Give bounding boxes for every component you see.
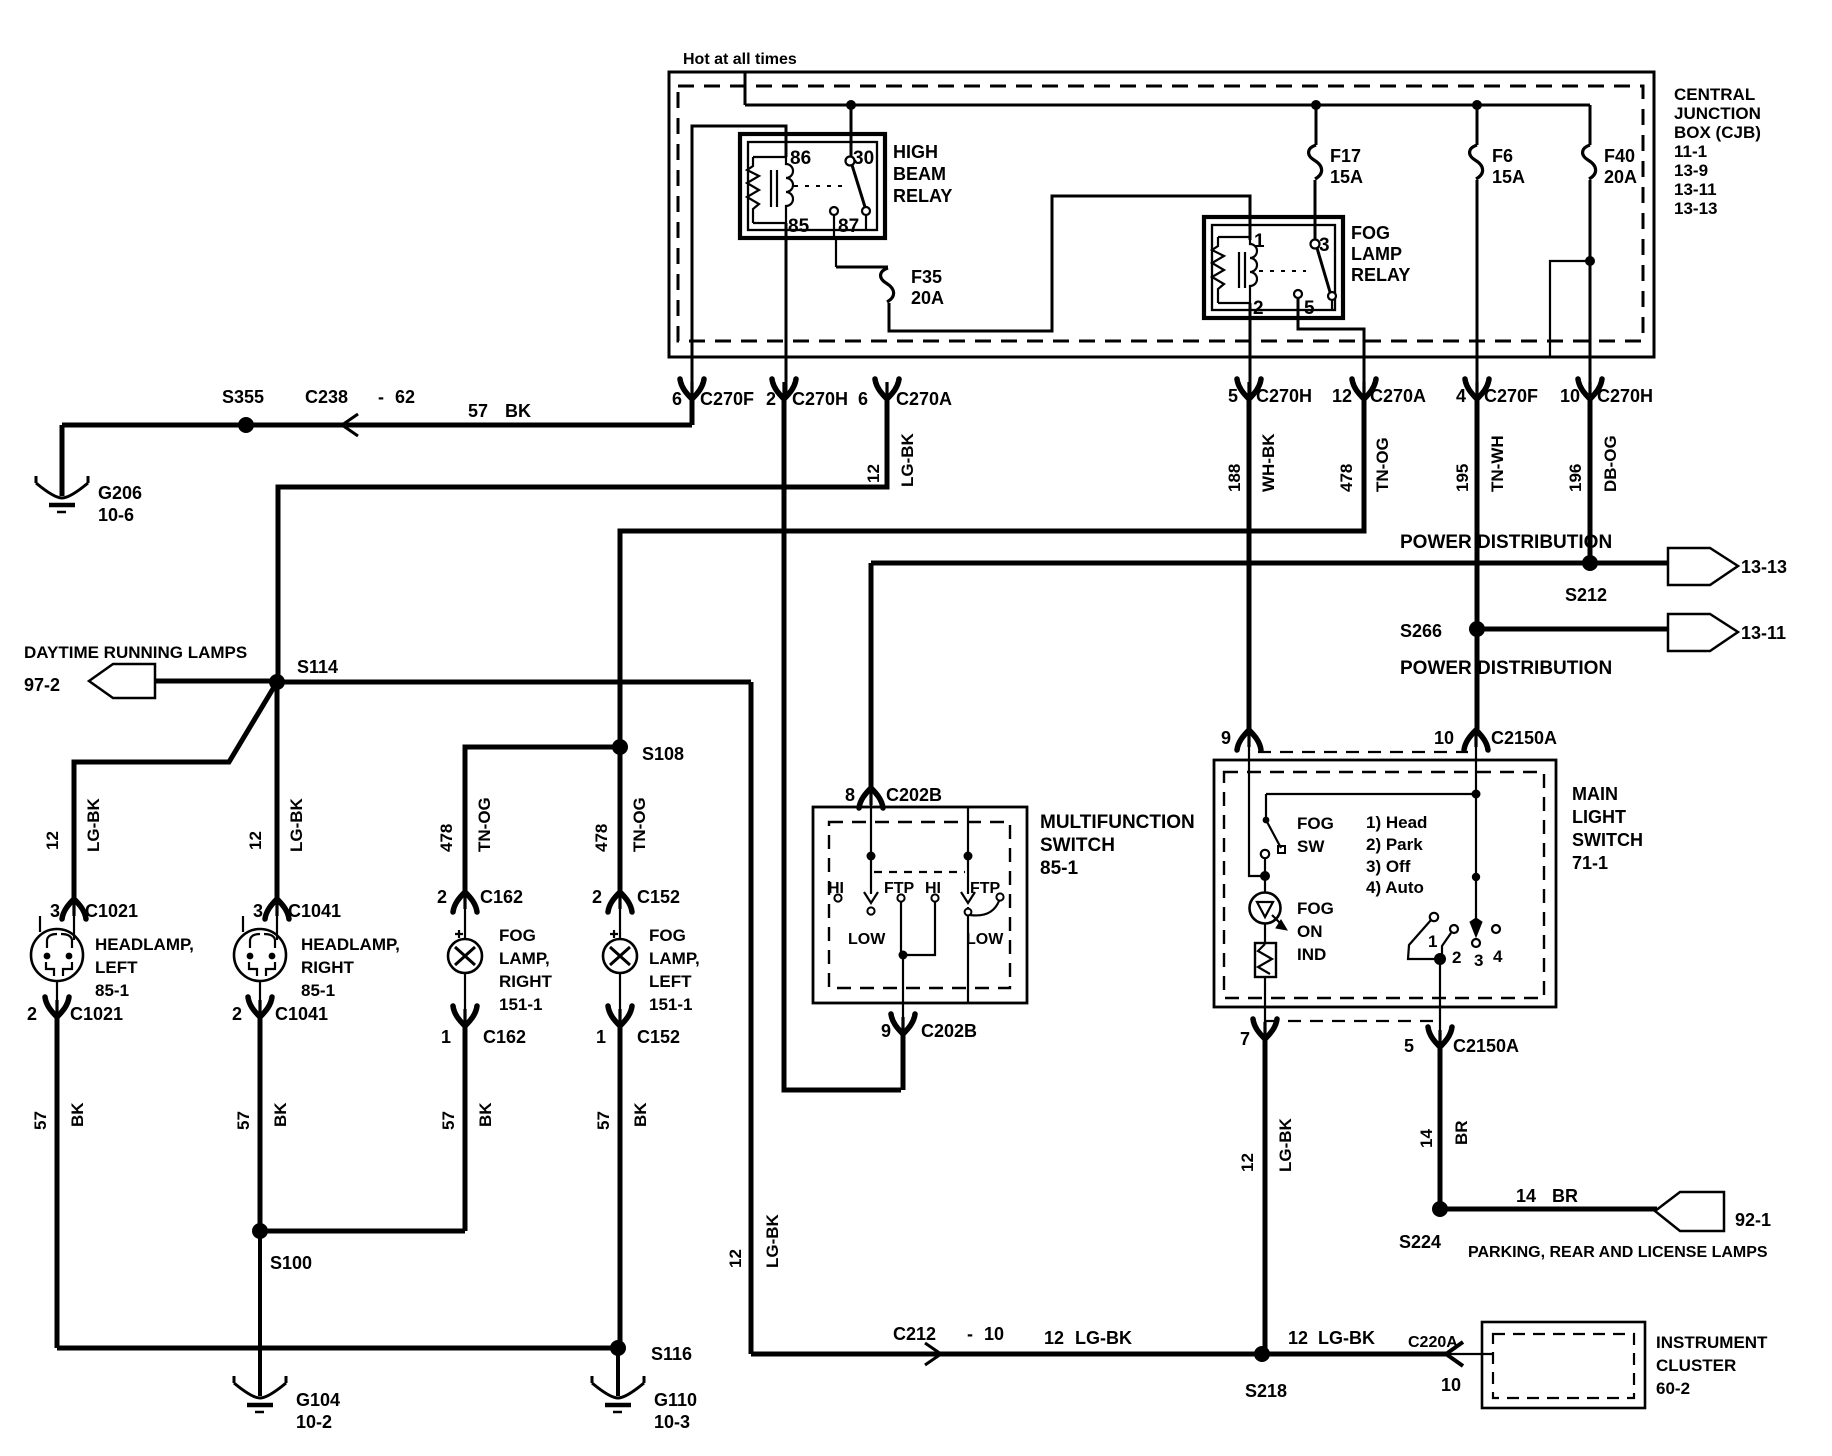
svg-text:HI: HI [925,880,941,897]
wire pin 9 into box to fog switch [1249,736,1261,876]
svg-text:4: 4 [1493,947,1503,966]
svg-text:BK: BK [476,1102,495,1127]
svg-text:5: 5 [1404,1036,1414,1056]
svg-text:FOG: FOG [499,926,536,945]
svg-text:RIGHT: RIGHT [499,972,553,991]
svg-text:3: 3 [1474,951,1483,970]
svg-text:TN-OG: TN-OG [475,797,494,852]
wire S212 left to multifunction feed [871,561,1590,566]
splice S224 [1432,1201,1448,1217]
wire fog right to S100 [463,1025,468,1231]
svg-text:3: 3 [50,901,60,921]
svg-text:FOG: FOG [1297,814,1334,833]
svg-text:F17: F17 [1330,146,1361,166]
svg-text:RELAY: RELAY [1351,265,1410,285]
svg-text:4: 4 [1456,386,1466,406]
junction node on bus at F6 [1472,100,1482,110]
svg-text:2: 2 [27,1004,37,1024]
svg-text:CLUSTER: CLUSTER [1656,1356,1736,1375]
svg-text:9: 9 [1221,728,1231,748]
splice S355 [238,417,254,433]
svg-text:LG-BK: LG-BK [287,797,306,852]
connector C162 pin 2 [453,892,477,912]
wire S355 horizontal [62,423,692,428]
svg-text:PARKING, REAR AND LICENSE LAMP: PARKING, REAR AND LICENSE LAMPS [1468,1244,1768,1261]
svg-text:57: 57 [234,1111,253,1130]
wire pin 2 to C270H-5 [1249,303,1252,399]
svg-text:1: 1 [596,1027,606,1047]
svg-text:60-2: 60-2 [1656,1379,1690,1398]
svg-text:C270A: C270A [1370,386,1426,406]
svg-text:BK: BK [631,1102,650,1127]
wire pin 5 down to S224 [1438,1046,1443,1209]
splice S100 [252,1223,268,1239]
wire S114 down to headlamp right [275,682,280,900]
relay K2 pin 5 contact [1294,290,1302,298]
svg-text:20A: 20A [911,288,944,308]
wire S266 to 13-11 flag [1477,627,1670,632]
offpage flag 97-2 DRL [89,664,155,698]
svg-text:6: 6 [672,389,682,409]
svg-text:2: 2 [232,1004,242,1024]
fuse F6 wire [1476,105,1479,145]
svg-text:11-1: 11-1 [1674,142,1707,161]
fog switch node [1260,871,1270,881]
junction node [899,951,908,960]
svg-text:LOW: LOW [966,931,1004,948]
svg-text:S212: S212 [1565,585,1607,605]
wire S224 to 92-1 flag [1440,1207,1657,1212]
svg-text:C202B: C202B [921,1021,977,1041]
svg-text:12: 12 [864,464,883,483]
wire F6 to C270F-4 [1476,180,1479,399]
wiper pivot left [867,852,876,861]
svg-text:62: 62 [395,387,415,407]
svg-text:12: 12 [1238,1153,1257,1172]
svg-text:MULTIFUNCTION: MULTIFUNCTION [1040,812,1195,833]
main light switch outer box [1214,760,1556,1007]
svg-text:DAYTIME RUNNING LAMPS: DAYTIME RUNNING LAMPS [24,643,247,662]
svg-text:13-11: 13-11 [1741,623,1786,643]
svg-text:9: 9 [881,1021,891,1041]
wire lamp to pin 2 [259,981,261,1004]
svg-text:SWITCH: SWITCH [1040,835,1115,856]
wiper left arm and arrow [870,860,872,894]
rotary lever [1408,920,1440,959]
svg-text:HEADLAMP,: HEADLAMP, [301,935,400,954]
wire fog left to S116 [618,1025,623,1348]
multifunction switch dashed box [829,822,1010,988]
connector C270H pin 2 [772,379,796,399]
connector C202B pin 9 [891,1014,915,1034]
contact FTP right [996,893,1003,900]
junction node on bus at F17 [1311,100,1321,110]
offpage flag 13-11 [1668,614,1738,651]
svg-text:1) Head: 1) Head [1366,813,1427,832]
svg-text:C1021: C1021 [85,901,138,921]
fuse F35 [881,268,894,302]
connector C202B pin 8 [859,788,883,808]
dashed connector line below switch [1266,1020,1433,1022]
wire S100 to fog right [260,1229,465,1234]
wire F17 to fog relay pin 3 [1314,180,1317,239]
svg-text:85-1: 85-1 [95,981,129,1000]
relay K2 pin 3 contact [1311,240,1320,249]
splice S218 [1254,1346,1270,1362]
relay K1 coil [747,157,759,223]
svg-text:S224: S224 [1399,1232,1441,1252]
relay K1 switch lever [852,165,865,207]
relay K2 switch lever [1317,248,1330,292]
svg-text:2: 2 [1253,298,1264,319]
wire down to ground G206 [60,425,65,496]
wire S114 right to bottom feed [277,680,751,685]
wire HI mid down [903,902,935,955]
wire pin 9 down to C270H-2 run [901,1033,906,1090]
svg-text:LG-BK: LG-BK [1318,1328,1375,1348]
svg-text:85-1: 85-1 [1040,858,1078,879]
svg-text:87: 87 [838,216,859,237]
connector C270H pin 5 [1237,379,1261,399]
svg-text:S116: S116 [651,1344,692,1364]
relay K2 inner box [1212,225,1335,310]
svg-text:86: 86 [790,148,811,169]
ground G206 [36,476,88,512]
splice S266 [1469,621,1485,637]
svg-text:10-3: 10-3 [654,1412,690,1432]
svg-text:LIGHT: LIGHT [1572,807,1626,827]
wire S114 diagonal to headlamp left [74,682,277,900]
wire feed down to multifunction pin 8 [869,563,874,789]
wire fog left to pin 1 [619,973,621,1013]
wire to pin 9 [902,955,904,1031]
splice S108 [612,739,628,755]
relay K1 lever tip contact [862,207,870,215]
wire lamp to pin 2 [56,981,58,1004]
svg-text:G104: G104 [296,1390,340,1410]
svg-text:C270H: C270H [792,389,848,409]
contact on right branch [965,909,972,916]
svg-text:-: - [378,387,384,407]
svg-text:14: 14 [1516,1186,1536,1206]
wire into lamp [276,903,278,940]
fog switch pivot [1265,794,1267,820]
svg-text:10-6: 10-6 [98,505,134,525]
wire S108 to fog lamp right [465,747,620,893]
svg-text:Hot at all times: Hot at all times [683,51,797,68]
svg-text:1: 1 [1428,932,1437,951]
svg-text:3) Off: 3) Off [1366,857,1411,876]
wire S212 to 13-13 flag [1590,561,1670,566]
svg-text:C270H: C270H [1256,386,1312,406]
connector C152 pin 1 [608,1006,632,1026]
svg-text:C152: C152 [637,1027,680,1047]
svg-text:LG-BK: LG-BK [763,1213,782,1268]
wire C270F-4 down through S266 to C2150A-10 arrow [1475,398,1480,731]
svg-text:BK: BK [68,1102,87,1127]
svg-text:15A: 15A [1492,167,1525,187]
dashed connector line above switch [1258,751,1468,753]
svg-text:12: 12 [43,831,62,850]
svg-text:FTP: FTP [970,880,1001,897]
svg-text:188: 188 [1225,464,1244,492]
svg-text:10: 10 [1560,386,1580,406]
contact FTP mid [897,894,904,901]
svg-text:ON: ON [1297,922,1323,941]
svg-text:S108: S108 [642,744,684,764]
contact 2 [1450,925,1458,933]
svg-text:97-2: 97-2 [24,675,60,695]
svg-text:57: 57 [31,1111,50,1130]
svg-text:2: 2 [1452,948,1461,967]
fog switch internal top rail [1266,793,1476,795]
hot bus wire [745,104,1590,107]
svg-text:12: 12 [246,831,265,850]
offpage flag 13-13 [1668,548,1738,585]
svg-text:196: 196 [1566,464,1585,492]
svg-text:57: 57 [594,1111,613,1130]
svg-text:1: 1 [441,1027,451,1047]
wire S108 down to fog lamp left [618,747,623,893]
wire S114 feed down to C212 line [749,682,754,1354]
relay K1 pin 30 wire from bus [850,105,853,156]
FOG ON IND lamp [1264,880,1266,893]
main light switch dashed box [1224,772,1544,998]
svg-text:IND: IND [1297,945,1326,964]
svg-text:WH-BK: WH-BK [1259,433,1278,492]
connector C270A pin 12 [1352,379,1376,399]
svg-text:92-1: 92-1 [1735,1210,1771,1230]
fog lamp left [603,939,637,973]
svg-text:10-2: 10-2 [296,1412,332,1432]
wire pin 8 into switch [870,795,872,856]
inline arrow on C212 wire [925,1343,941,1365]
svg-text:LEFT: LEFT [95,958,138,977]
wire into fog lamp left [619,898,621,939]
svg-text:F40: F40 [1604,146,1635,166]
svg-text:12: 12 [726,1249,745,1268]
headlamp left bulb [31,929,83,981]
svg-text:8: 8 [845,785,855,805]
svg-text:13-13: 13-13 [1741,557,1787,577]
svg-text:LG-BK: LG-BK [1075,1328,1132,1348]
CJB outer box [669,72,1654,357]
instrument cluster box [1482,1322,1645,1408]
svg-text:BK: BK [271,1102,290,1127]
relay K1 outer box [740,134,885,238]
svg-text:LAMP,: LAMP, [499,949,550,968]
svg-text:FTP: FTP [884,880,915,897]
lever curve to FTP right [970,901,999,915]
connector C152 pin 2 [608,892,632,912]
svg-text:7: 7 [1240,1029,1250,1049]
svg-text:195: 195 [1453,464,1472,492]
splice S114 [269,674,285,690]
wire F35 to fog relay pin 1 [889,196,1250,331]
connector C270F pin 6 [680,379,704,399]
contact 4 [1492,925,1500,933]
relay K1 pin 87 contact [830,207,838,215]
svg-text:HIGH: HIGH [893,142,938,162]
ground G110 [592,1376,644,1412]
connector C1021 pin 2 [45,997,69,1017]
svg-text:S355: S355 [222,387,264,407]
svg-text:14: 14 [1417,1129,1436,1148]
svg-text:SWITCH: SWITCH [1572,830,1643,850]
svg-text:HEADLAMP,: HEADLAMP, [95,935,194,954]
wire C270A-6 down, left, to S114 [278,398,887,676]
svg-text:C1041: C1041 [288,901,341,921]
contact HI mid [931,894,938,901]
wire into fog lamp right [464,898,466,939]
connector C270A pin 6 [875,379,899,399]
svg-text:C270F: C270F [700,389,754,409]
stub branch into CJB [1550,261,1590,356]
fuse F40 [1589,105,1592,145]
mechanical link dashed [874,871,965,873]
wire headlamp right to S100 [258,1016,263,1231]
contact LOW left [867,907,874,914]
svg-text:RELAY: RELAY [893,186,952,206]
CJB inner dashed box [678,86,1643,341]
svg-text:FOG: FOG [1297,899,1334,918]
connector C162 pin 1 [453,1006,477,1026]
svg-text:C162: C162 [480,887,523,907]
svg-text:C2150A: C2150A [1491,728,1557,748]
wire C2150A-10 into box [1475,736,1477,922]
wire headlamp left ground [55,1016,60,1348]
svg-text:12: 12 [1332,386,1352,406]
connector C1021 pin 3 [62,899,86,919]
svg-text:DB-OG: DB-OG [1601,435,1620,492]
rotary common node [1434,953,1446,965]
wiper pivot right [964,852,973,861]
fuse F17 [1309,145,1322,179]
instrument cluster dashed box [1493,1334,1634,1398]
svg-text:TN-OG: TN-OG [630,797,649,852]
svg-text:4) Auto: 4) Auto [1366,878,1424,897]
svg-text:LG-BK: LG-BK [1276,1117,1295,1172]
svg-text:INSTRUMENT: INSTRUMENT [1656,1333,1768,1352]
wire pin 85 to C270H [785,223,788,399]
wire pin 7 down to S218 [1263,1038,1268,1354]
svg-text:BR: BR [1452,1120,1471,1145]
wire C270H-5 down to pin 9 arrow [1247,398,1252,731]
svg-text:13-13: 13-13 [1674,199,1717,218]
arrow onto contact 3 [1470,918,1482,937]
svg-text:478: 478 [592,824,611,852]
svg-text:BK: BK [505,401,531,421]
svg-text:2: 2 [437,887,447,907]
svg-text:G206: G206 [98,483,142,503]
svg-text:S114: S114 [297,657,338,677]
svg-text:BR: BR [1552,1186,1578,1206]
wire S116 horizontal [57,1346,618,1351]
svg-text:2: 2 [592,887,602,907]
svg-text:10: 10 [984,1324,1004,1344]
svg-text:MAIN: MAIN [1572,784,1618,804]
connector C2150A pin 5 [1428,1027,1452,1047]
contact 1 [1430,913,1438,921]
wire fog right to pin 1 [464,973,466,1013]
svg-text:POWER DISTRIBUTION: POWER DISTRIBUTION [1400,658,1612,679]
svg-text:BEAM: BEAM [893,164,946,184]
wire C212 horizontal to S218 [751,1352,1262,1357]
svg-text:57: 57 [439,1111,458,1130]
node on wire [1472,873,1480,881]
svg-text:TN-OG: TN-OG [1373,437,1392,492]
svg-text:10: 10 [1441,1375,1461,1395]
wire C270A-12 down, left at y531, down to S108 [620,398,1364,745]
svg-text:C1021: C1021 [70,1004,123,1024]
wire FTP mid down [901,902,903,955]
wiper right arm and arrow [967,807,969,894]
svg-text:C270F: C270F [1484,386,1538,406]
inline arrow on C238 wire [342,414,358,436]
svg-text:JUNCTION: JUNCTION [1674,104,1761,123]
svg-text:85: 85 [788,216,810,237]
svg-text:2: 2 [766,389,776,409]
svg-text:C220A: C220A [1408,1334,1458,1351]
resistor below lamp [1264,923,1266,943]
svg-text:C202B: C202B [886,785,942,805]
svg-text:LG-BK: LG-BK [84,797,103,852]
svg-text:C270H: C270H [1597,386,1653,406]
svg-text:71-1: 71-1 [1572,853,1608,873]
svg-text:S266: S266 [1400,621,1442,641]
svg-text:LAMP,: LAMP, [649,949,700,968]
svg-text:HI: HI [828,880,844,897]
relay K1 pin 30 contact [846,157,855,166]
relay K2 outer box [1204,217,1343,318]
wire DRL flag to S114 [155,679,277,684]
connector C2150A pin 10 [1464,730,1488,750]
svg-text:C238: C238 [305,387,348,407]
svg-text:5: 5 [1228,386,1238,406]
wire into lamp [73,903,75,940]
svg-text:SW: SW [1297,837,1325,856]
fog switch contact [1261,850,1269,858]
headlamp right bulb [234,929,286,981]
svg-text:-: - [967,1324,973,1344]
svg-text:F6: F6 [1492,146,1513,166]
svg-text:57: 57 [468,401,488,421]
offpage flag 92-1 [1655,1192,1724,1231]
svg-text:BOX (CJB): BOX (CJB) [1674,123,1761,142]
wire F40 to C270H-10 [1589,180,1592,399]
svg-text:POWER DISTRIBUTION: POWER DISTRIBUTION [1400,532,1612,553]
relay K1 armature dashed link [794,185,846,187]
relay K2 coil [1212,237,1224,303]
svg-text:C1041: C1041 [275,1004,328,1024]
svg-text:LOW: LOW [848,931,886,948]
svg-text:C270A: C270A [896,389,952,409]
right branch wire through to box bottom [967,907,969,1003]
junction node on bus at relay 30 [846,100,856,110]
svg-text:LAMP: LAMP [1351,244,1402,264]
svg-text:C212: C212 [893,1324,936,1344]
connector C1041 pin 3 [265,899,289,919]
svg-text:FOG: FOG [649,926,686,945]
pin 9 arrow into switch [1237,730,1261,750]
svg-text:6: 6 [858,389,868,409]
svg-text:C2150A: C2150A [1453,1036,1519,1056]
wire pin 5 to C270A-12 [1298,298,1364,399]
wire pin 87 to fuse F35 [836,266,888,269]
svg-text:F35: F35 [911,267,942,287]
svg-text:478: 478 [437,824,456,852]
node top rail right [1472,790,1481,799]
